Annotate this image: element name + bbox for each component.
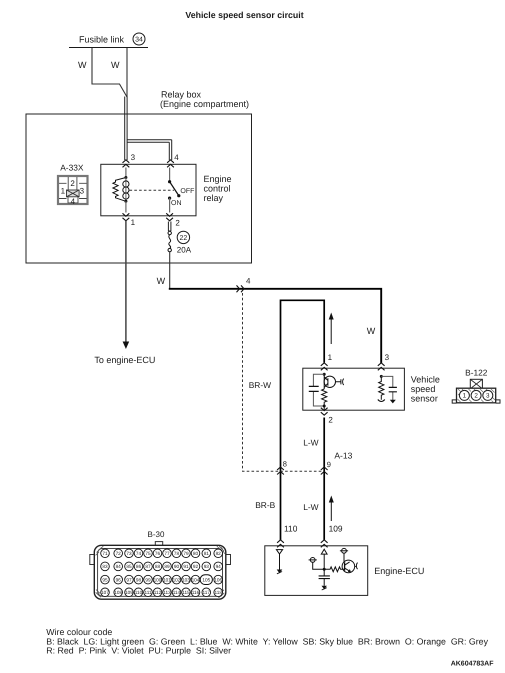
connector B-122 cavity 2: [471, 390, 481, 400]
ECU input transistor: [342, 560, 355, 573]
svg-text:75: 75: [145, 551, 151, 556]
ECU power symbol left: [310, 558, 315, 563]
svg-text:113: 113: [163, 590, 171, 595]
engine-ECU box: [265, 546, 368, 596]
engine control relay box: [101, 164, 196, 216]
ground arrow pin 110: [277, 570, 283, 574]
B-30 terminal 90: [172, 562, 181, 571]
B-30 terminal 97: [125, 575, 134, 584]
svg-text:OFF: OFF: [180, 188, 194, 195]
svg-text:22: 22: [180, 235, 188, 242]
svg-text:106: 106: [214, 577, 222, 582]
fusible link number 34: [133, 33, 145, 45]
svg-text:89: 89: [164, 564, 170, 569]
ECU node: [323, 568, 326, 571]
svg-text:W: W: [157, 276, 166, 286]
svg-text:control: control: [204, 184, 231, 194]
svg-text:105: 105: [202, 577, 210, 582]
B-30 terminal 87: [144, 562, 153, 571]
sensor cap to chassis ground: [381, 376, 393, 400]
A-13 pin 9 pass-through: [321, 467, 328, 475]
fuse number 22: [177, 231, 189, 243]
svg-text:73: 73: [126, 551, 132, 556]
svg-text:1: 1: [61, 187, 66, 196]
connector B-122 cavity 3: [483, 390, 493, 400]
svg-text:77: 77: [164, 551, 170, 556]
sensor capacitor plates: [309, 386, 319, 391]
connector A-33X face: [58, 176, 88, 206]
svg-text:3: 3: [131, 153, 136, 162]
svg-text:To engine-ECU: To engine-ECU: [94, 355, 155, 365]
B-30 terminal 85: [125, 562, 134, 571]
wire fuse to corner: [169, 252, 171, 288]
B-30 terminal 106: [214, 575, 223, 584]
sensor ground arrow open: [378, 400, 385, 402]
B-30 terminal 104: [191, 575, 200, 584]
relay coil resistor: [113, 178, 126, 202]
svg-text:85: 85: [126, 564, 132, 569]
B-30 terminal 103: [182, 575, 191, 584]
svg-text:100: 100: [154, 577, 162, 582]
sensor pin 3: [378, 363, 385, 371]
svg-text:3: 3: [486, 393, 490, 400]
svg-text:Fusible link: Fusible link: [79, 35, 125, 45]
wire sensor pin 1 output: [281, 300, 325, 540]
B-30 terminal 82: [214, 549, 223, 558]
wire pin109 to node: [323, 554, 325, 569]
A-13 pin 8 pass-through: [277, 467, 284, 475]
B-30 terminal 101: [163, 575, 172, 584]
B-30 terminal 86: [134, 562, 143, 571]
svg-text:71: 71: [102, 551, 108, 556]
relay box outer: [26, 114, 252, 263]
double feed branch to pin 4: [127, 140, 172, 142]
wire switch to pin 2: [169, 198, 171, 212]
connector B-122 body: [457, 388, 496, 403]
connector A-13 pin 4 pass-through: [237, 285, 245, 292]
svg-text:90: 90: [174, 564, 180, 569]
svg-text:93: 93: [204, 564, 210, 569]
dashed connector A-13 line: [243, 293, 323, 471]
connector B-122 latch: [470, 379, 482, 388]
B-30 terminal 96: [114, 575, 123, 584]
B-30 terminal 109: [125, 588, 134, 597]
B-30 terminal 107: [101, 588, 110, 597]
sensor node pin3: [380, 375, 383, 378]
svg-text:118: 118: [214, 590, 222, 595]
B-30 terminal 117: [202, 588, 211, 597]
svg-text:W: W: [78, 60, 87, 70]
svg-text:Engine-ECU: Engine-ECU: [374, 566, 424, 576]
wire pin110 to ground: [279, 554, 281, 570]
B-30 terminal 116: [191, 588, 200, 597]
pin 4: [167, 160, 174, 168]
sensor pin 2: [321, 408, 328, 416]
sensor pull resistor: [379, 376, 384, 399]
svg-text:97: 97: [126, 577, 132, 582]
ECU filter capacitor: [323, 569, 325, 586]
svg-text:W: W: [367, 326, 376, 336]
B-30 terminal 113: [163, 588, 172, 597]
svg-text:114: 114: [173, 590, 181, 595]
svg-text:110: 110: [135, 590, 143, 595]
svg-text:BR-B: BR-B: [255, 500, 275, 510]
svg-text:2: 2: [328, 416, 333, 425]
svg-text:81: 81: [204, 551, 210, 556]
B-30 terminal 112: [153, 588, 162, 597]
wire pin 4 to switch: [169, 168, 171, 182]
svg-text:A-13: A-13: [334, 451, 352, 461]
wire from relay pin 1 down: [125, 221, 127, 342]
B-30 terminal 115: [182, 588, 191, 597]
svg-text:101: 101: [163, 577, 171, 582]
svg-text:relay: relay: [204, 193, 224, 203]
svg-text:99: 99: [145, 577, 151, 582]
B-30 terminal 91: [182, 562, 191, 571]
relay coil inductor: [125, 178, 127, 202]
svg-text:AK604783AF: AK604783AF: [451, 661, 495, 668]
ECU pin 109: [321, 540, 328, 548]
vehicle speed sensor box: [303, 368, 405, 410]
svg-text:BR-W: BR-W: [249, 380, 271, 390]
svg-text:76: 76: [155, 551, 161, 556]
connector B-30 body: [155, 542, 162, 547]
svg-text:Vehicle: Vehicle: [411, 374, 440, 384]
B-30 terminal 111: [144, 588, 153, 597]
svg-text:R: Red P: Pink V: Violet PU: R: Red P: Pink V: Violet PU: Purple SI: …: [46, 645, 231, 655]
svg-text:83: 83: [102, 564, 108, 569]
svg-text:3: 3: [385, 353, 390, 362]
wire sensor pin 2 to ECU pin 109: [323, 418, 325, 541]
svg-text:1: 1: [131, 218, 136, 227]
svg-text:109: 109: [329, 524, 343, 534]
arrow to engine-ECU: [123, 342, 130, 350]
svg-text:108: 108: [114, 590, 122, 595]
svg-text:109: 109: [125, 590, 133, 595]
B-30 terminal 94: [214, 562, 223, 571]
double feed wire down to relay: [125, 97, 127, 161]
fuse lead double line: [168, 222, 171, 232]
B-30 terminal 74: [134, 549, 143, 558]
svg-text:95: 95: [102, 577, 108, 582]
transistor base lead and element: [336, 379, 341, 384]
svg-text:1: 1: [328, 353, 333, 362]
svg-text:34: 34: [135, 37, 143, 44]
wire W right from fusible link: [126, 48, 128, 97]
pin 1: [123, 213, 130, 221]
B-30 terminal 79: [182, 549, 191, 558]
svg-text:91: 91: [183, 564, 189, 569]
B-30 terminal 81: [202, 549, 211, 558]
svg-text:2: 2: [474, 393, 478, 400]
pin 3: [123, 160, 130, 168]
fusible link bus bar: [69, 47, 148, 49]
svg-text:79: 79: [183, 551, 189, 556]
wire coil to pin 1: [125, 201, 127, 212]
sensor pin 1: [321, 363, 328, 371]
svg-text:74: 74: [136, 551, 142, 556]
svg-text:W: W: [111, 60, 120, 70]
B-30 terminal 84: [114, 562, 123, 571]
svg-text:115: 115: [182, 590, 190, 595]
ECU power symbol transistor: [342, 548, 347, 553]
current direction arrow near sensor: [330, 318, 332, 344]
wire W left from fusible link: [92, 48, 127, 97]
thick wire W to sensor pin 3: [169, 289, 381, 363]
B-30 terminal 102: [172, 575, 181, 584]
svg-text:2: 2: [175, 219, 180, 228]
svg-text:1: 1: [463, 393, 467, 400]
B-30 terminal 92: [191, 562, 200, 571]
sensor node pin2: [323, 405, 326, 408]
svg-text:sensor: sensor: [411, 393, 438, 403]
current direction arrow near ECU: [330, 501, 332, 521]
ECU comparator input marker pin 110: [276, 550, 282, 554]
ECU pull-up branch: [313, 562, 325, 569]
svg-text:L-W: L-W: [303, 502, 318, 512]
connector B-122 feet: [452, 400, 500, 403]
svg-text:82: 82: [216, 551, 222, 556]
B-30 terminal 78: [172, 549, 181, 558]
dashed actuation link: [130, 189, 175, 191]
svg-text:87: 87: [145, 564, 151, 569]
fuse element: [168, 231, 171, 234]
svg-text:2: 2: [70, 179, 75, 188]
ECU series resistor: [324, 567, 344, 572]
B-30 terminal 89: [163, 562, 172, 571]
svg-text:88: 88: [155, 564, 161, 569]
node bottom of coil: [124, 200, 127, 203]
sensor resistor: [322, 389, 327, 406]
svg-text:78: 78: [174, 551, 180, 556]
svg-text:Engine: Engine: [204, 174, 232, 184]
switch blade: [170, 182, 179, 196]
sensor capacitor branch: [313, 374, 324, 406]
svg-text:4: 4: [246, 277, 251, 286]
ECU comparator input marker pin 109: [321, 549, 327, 554]
B-30 terminal 108: [114, 588, 123, 597]
svg-text:110: 110: [284, 524, 298, 534]
sensor output transistor: [324, 376, 335, 387]
node top of coil: [124, 176, 127, 179]
B-30 terminal 99: [144, 575, 153, 584]
svg-text:92: 92: [193, 564, 199, 569]
svg-text:112: 112: [154, 590, 162, 595]
svg-text:9: 9: [327, 460, 331, 469]
B-30 terminal 95: [101, 575, 110, 584]
relay coil wire from pin 3: [125, 168, 127, 178]
svg-text:4: 4: [174, 153, 179, 162]
svg-text:Vehicle speed sensor circuit: Vehicle speed sensor circuit: [185, 10, 303, 20]
svg-text:104: 104: [192, 577, 200, 582]
svg-text:107: 107: [101, 590, 109, 595]
chassis ground triangle: [390, 400, 396, 404]
svg-text:Relay box: Relay box: [161, 89, 202, 99]
B-30 terminal 118: [214, 588, 223, 597]
svg-text:103: 103: [182, 577, 190, 582]
svg-text:20A: 20A: [177, 245, 192, 254]
B-30 terminal 77: [163, 549, 172, 558]
svg-text:L-W: L-W: [303, 437, 318, 447]
B-30 terminal 72: [114, 549, 123, 558]
svg-text:94: 94: [216, 564, 222, 569]
B-30 terminal 73: [125, 549, 134, 558]
B-30 terminal 98: [134, 575, 143, 584]
svg-text:3: 3: [80, 187, 85, 196]
switch contact ON: [168, 197, 171, 200]
B-30 terminal 83: [101, 562, 110, 571]
svg-text:86: 86: [136, 564, 142, 569]
switch contact top: [168, 180, 171, 183]
svg-text:84: 84: [116, 564, 122, 569]
svg-text:8: 8: [283, 460, 287, 469]
svg-text:80: 80: [193, 551, 199, 556]
svg-text:ON: ON: [171, 200, 182, 207]
svg-text:4: 4: [71, 197, 76, 206]
svg-text:B-30: B-30: [148, 530, 165, 539]
B-30 terminal 100: [153, 575, 162, 584]
B-30 terminal 76: [153, 549, 162, 558]
B-30 terminal 110: [134, 588, 143, 597]
svg-text:98: 98: [136, 577, 142, 582]
sensor node pin1: [323, 373, 326, 376]
svg-text:(Engine compartment): (Engine compartment): [160, 99, 249, 109]
B-30 terminal 114: [172, 588, 181, 597]
B-30 terminal 105 highlighted: [200, 575, 212, 585]
svg-text:72: 72: [116, 551, 122, 556]
B-30 terminal 93: [202, 562, 211, 571]
connector B-122 cavity 1: [459, 390, 469, 400]
B-30 terminal 88: [153, 562, 162, 571]
svg-text:102: 102: [173, 577, 181, 582]
svg-text:96: 96: [116, 577, 122, 582]
ground arrow ECU cap: [322, 586, 327, 590]
ECU pin 110: [277, 540, 284, 548]
ECU transistor continuation hook: [356, 563, 357, 570]
svg-text:111: 111: [144, 590, 152, 595]
svg-text:116: 116: [192, 590, 200, 595]
svg-text:speed: speed: [411, 384, 436, 394]
B-30 terminal 80: [191, 549, 200, 558]
svg-text:117: 117: [203, 590, 211, 595]
pin 2: [166, 213, 173, 221]
svg-text:B-122: B-122: [465, 368, 488, 378]
svg-text:A-33X: A-33X: [60, 163, 84, 173]
B-30 terminal 71: [101, 549, 110, 558]
B-30 terminal 75: [144, 549, 153, 558]
